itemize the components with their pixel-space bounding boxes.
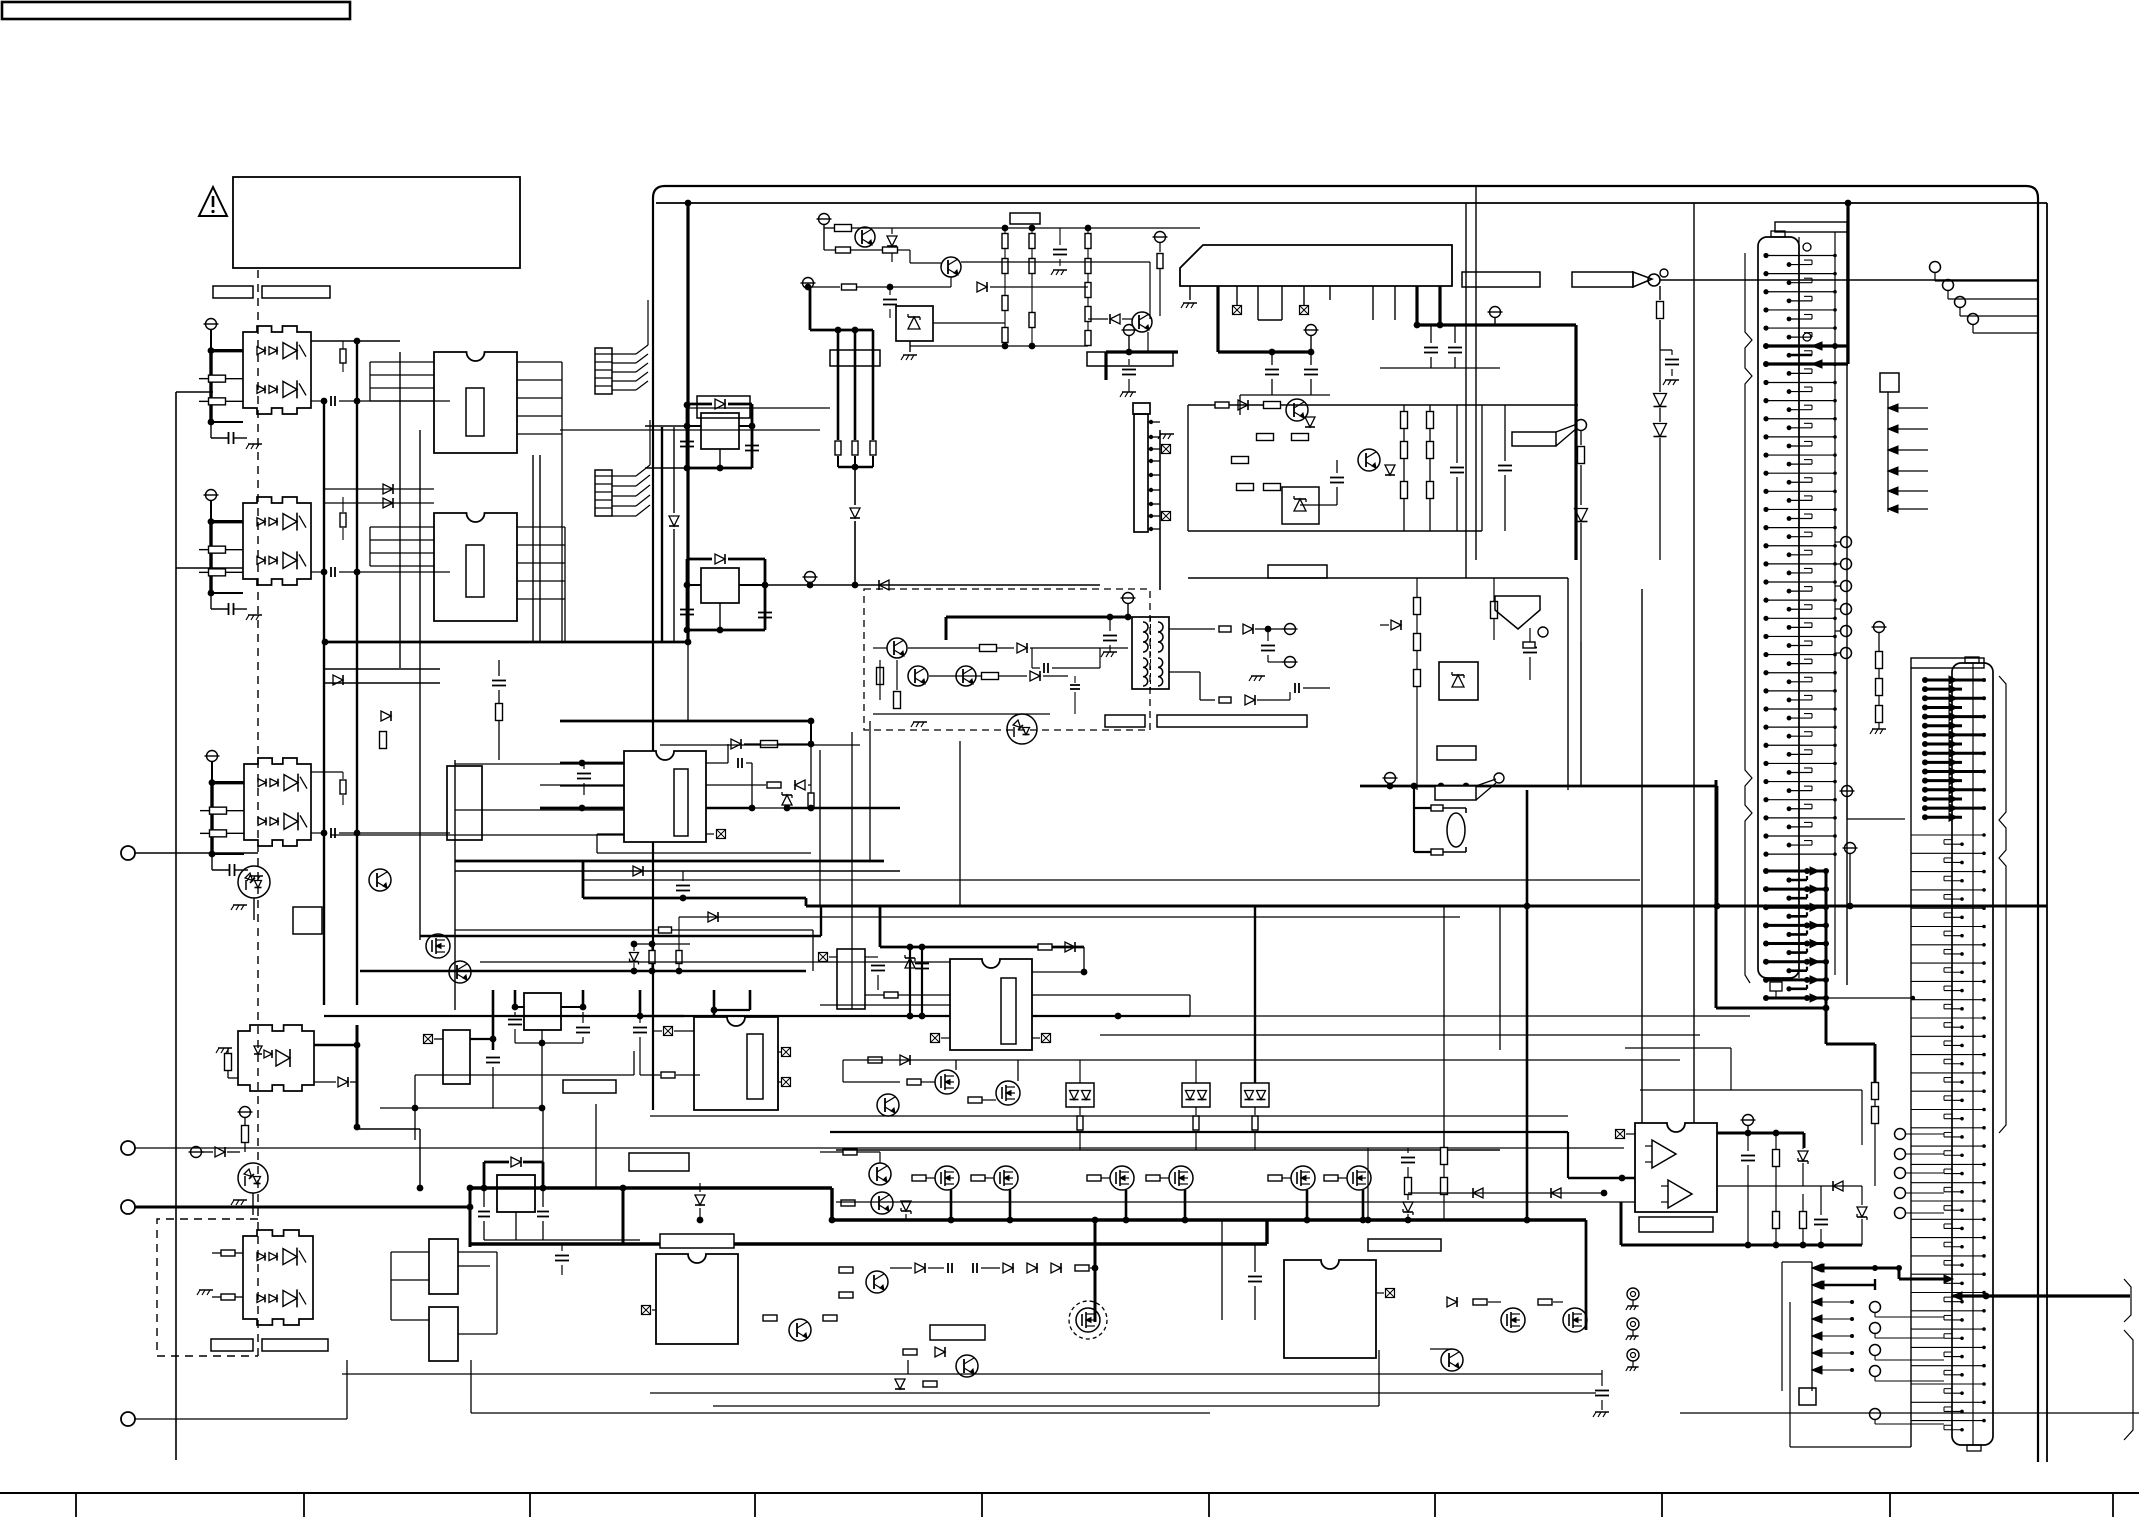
resistor array RA1: [595, 348, 612, 394]
T1 secondary top: [1169, 624, 1298, 668]
opto-coupler PC5 passives: [197, 1250, 243, 1300]
opto-coupler PC1 passives: [199, 319, 262, 450]
heatsink bar: [1180, 245, 1452, 286]
bus 1132: [830, 1132, 1717, 1181]
thin long mid5: [1100, 1034, 1700, 1036]
photo transistor Q1: [231, 866, 270, 920]
dashed separator: [257, 270, 259, 1360]
warning note box: [233, 177, 520, 268]
CN1 side terminals: [1835, 537, 1852, 659]
bus inner top: [656, 203, 2047, 1462]
warning triangle: [199, 187, 227, 216]
sub-circuit Q5 block: [1188, 399, 1578, 531]
CN2 left terminals: [1895, 1129, 1945, 1219]
IC U9: [1284, 1260, 1376, 1358]
wire right top: [1654, 280, 2039, 560]
wire top bus: [686, 203, 689, 642]
bus horizontals left: [322, 639, 950, 1016]
dual diode packs: [1066, 1060, 1269, 1150]
label rect D: [262, 1339, 328, 1351]
connector CN5: [1782, 1262, 1911, 1447]
main bus C: [470, 1220, 1267, 1320]
wire 923: [679, 912, 1460, 922]
left vertical wire: [176, 392, 243, 1460]
IC U2: [434, 513, 517, 621]
label top1: [830, 350, 880, 366]
xpin U9: [1376, 1289, 1395, 1298]
thick bus 861: [455, 861, 884, 906]
zener box Z1: [896, 306, 1005, 360]
CN1 bottom tab wire: [1770, 982, 1915, 1000]
mosfet circled: [1069, 1301, 1107, 1339]
opto-coupler PC5: [243, 1230, 313, 1325]
connector CN3: [1133, 403, 1174, 532]
servo block: [1188, 578, 1568, 790]
bottom cap: [1593, 1370, 1609, 1417]
RA fans: [612, 300, 650, 516]
xpin U10: [1616, 1130, 1636, 1139]
connector CN2 body: [1911, 657, 1993, 1451]
bottom long wires: [342, 1350, 1602, 1413]
opto-coupler PC3 passives: [200, 751, 263, 882]
U6 top feeds: [711, 990, 750, 1017]
opto-coupler PC4 passives: [189, 1025, 424, 1191]
T1 secondary bottom: [1169, 672, 1330, 705]
transistor Q4 group: [801, 257, 1151, 333]
terminal T1: [121, 846, 258, 860]
thin long mid4: [1190, 1015, 1750, 1017]
U7 feed network: [880, 906, 1087, 1019]
heatsink pins: [1181, 286, 1395, 320]
right Q cluster: [1087, 232, 1173, 367]
main bus B: [470, 1188, 1586, 1223]
terminal T4: [121, 1360, 347, 1426]
mosfets right: [1447, 1297, 1587, 1332]
bottom wire right: [1680, 1390, 2139, 1413]
CN5 thick links: [1814, 1264, 1953, 1290]
terminal T2: [121, 1141, 1624, 1155]
transistor Q3 group: [817, 214, 1201, 264]
far right brace1: [2124, 1279, 2131, 1322]
label mid: [697, 396, 750, 418]
regulator block RG1: [645, 399, 759, 471]
long verticals mid: [1160, 186, 1694, 1156]
xpins U7: [931, 1034, 1051, 1043]
arrow header CN4: [1880, 373, 1928, 513]
CN2 thick feed: [1952, 1292, 2130, 1300]
wire bundle 930s: [455, 930, 813, 971]
regulator U8 group: [380, 990, 700, 1140]
res chain 1875: [1872, 1083, 1879, 1187]
CN1 brace: [1745, 253, 1752, 983]
main bus A: [806, 903, 2047, 910]
lattice wires: [330, 408, 1568, 1188]
frame outer: [653, 186, 2038, 1462]
connector CN2 brace: [1999, 676, 2006, 1133]
mosfet row: [912, 1166, 1371, 1223]
CN1 thick route: [1625, 871, 1875, 1145]
servo label: [1437, 746, 1476, 760]
driver box U11: [819, 949, 951, 1009]
label sub1: [1268, 565, 1327, 578]
IC U5: [656, 1254, 738, 1344]
IC U7: [950, 959, 1032, 1050]
label rect C: [211, 1339, 253, 1351]
connector CN1 thick pins: [1763, 342, 1848, 368]
vterm 1850: [1843, 843, 1858, 910]
label rect B: [262, 286, 330, 298]
thin long mid1: [583, 721, 1640, 880]
thick 1527: [1526, 790, 1529, 1220]
CN1 res divider: [1870, 622, 1887, 735]
bus 1202 feed: [1681, 1178, 1717, 1205]
thick conn bus: [1846, 203, 1849, 364]
driver transistors: [695, 1149, 893, 1223]
top resistor bank: [910, 213, 1091, 349]
left mid components: [293, 338, 506, 983]
vcc node mid: [1106, 325, 1178, 398]
CN1 left thick: [1716, 780, 1829, 1011]
connector CN1 pins: [1763, 253, 1836, 857]
bus B step: [1585, 1220, 1588, 1330]
opto-coupler PC2: [243, 497, 311, 585]
regulator U4: [478, 1107, 640, 1240]
gate row wire: [836, 1150, 1684, 1220]
small IC box2: [429, 1307, 458, 1361]
zener trio 957: [630, 917, 683, 971]
connector CN2 thick pins: [1922, 676, 1986, 821]
transformer T1: [1132, 617, 1169, 689]
label U5: [660, 1234, 734, 1248]
CN1 gnd sym: [1840, 786, 1906, 820]
connector CN1 bus: [1834, 232, 1836, 975]
bottom transistor cluster: [763, 1315, 985, 1389]
resistor array RA2: [595, 470, 612, 516]
CN2 lower terminals: [1870, 1302, 1945, 1425]
upper mosfets: [868, 1055, 1020, 1116]
heatsink thick pins: [1414, 286, 1576, 560]
connector CN2 pins: [1911, 833, 1986, 1431]
servo thick 786: [1360, 773, 1720, 910]
thick triple: [835, 330, 876, 588]
right mosfet cluster: [1368, 1132, 1607, 1251]
opto-coupler PC4: [238, 1025, 314, 1091]
junction: [685, 200, 1852, 207]
power oscillator: [873, 593, 1136, 745]
U7 pin rows: [820, 995, 1190, 1019]
IC U6: [694, 1017, 778, 1110]
flag2: [1435, 773, 1504, 800]
wire 871: [455, 866, 900, 901]
opto-coupler PC1: [243, 326, 311, 414]
dashed box: [157, 1219, 258, 1356]
top-right terminals: [1930, 262, 2039, 334]
far right brace2: [2124, 1330, 2133, 1440]
label reg2: [629, 1153, 689, 1171]
photo transistor Q2: [231, 1163, 268, 1215]
caps heatsink: [1380, 325, 1500, 368]
wires small ICs: [391, 1252, 497, 1334]
regulator block RG2: [680, 554, 1100, 633]
IC U1: [434, 352, 517, 453]
labels right top: [1462, 269, 1668, 287]
IC U3: [624, 751, 706, 842]
connector CN1 body: [1758, 222, 1847, 985]
upper row wire: [843, 1060, 1680, 1082]
U3 passives: [540, 718, 900, 853]
label U10: [1639, 1217, 1713, 1232]
coil M1: [1411, 783, 1466, 855]
vcc node top: [1218, 286, 1330, 415]
xpin U6a: [654, 1027, 791, 1087]
opto-coupler PC3: [244, 758, 311, 846]
labels under T1: [1105, 715, 1307, 727]
border top-left title box: [2, 2, 350, 19]
npn U9: [1430, 1349, 1463, 1371]
gnd circles: [1626, 1288, 1639, 1371]
bottom diode chain: [839, 1217, 1222, 1322]
op-amp U10: [1635, 1123, 1717, 1212]
bus verticals left: [324, 341, 540, 1010]
zener x674: [662, 427, 679, 641]
dashed power box: [864, 589, 1150, 730]
xpin U5: [642, 1306, 657, 1315]
terminal T3: [121, 1200, 470, 1214]
title strip: [0, 1493, 2139, 1517]
opto-coupler PC2 passives: [199, 490, 262, 621]
wires U1/U2 pins: [324, 362, 565, 642]
flag right: [1512, 420, 1588, 642]
connector CN1 bottom thick pins: [1763, 867, 1829, 1002]
label rect A: [213, 286, 253, 298]
op-amp passives: [1621, 1115, 1867, 1249]
small IC box1: [429, 1239, 458, 1294]
U4 riser: [467, 1185, 627, 1275]
